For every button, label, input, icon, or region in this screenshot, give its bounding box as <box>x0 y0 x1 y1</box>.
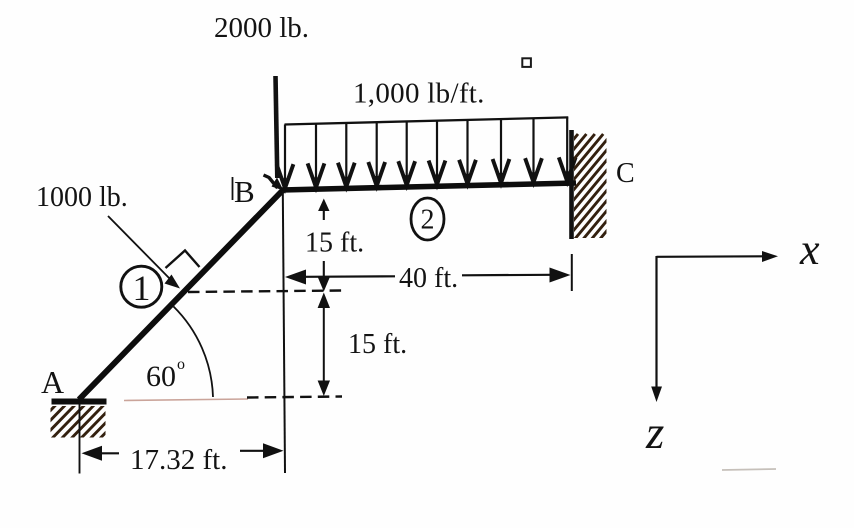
dim 40 ft: left shaft <box>305 275 395 278</box>
label B tick <box>232 177 234 200</box>
svg-text:1,000 lb/ft.: 1,000 lb/ft. <box>353 78 485 110</box>
chevron mark on member 1 <box>166 251 200 269</box>
extension line at B (x=283) <box>283 191 285 473</box>
support bar at A <box>52 399 107 405</box>
dashed line upper (15 ft level) <box>188 291 342 293</box>
distributed load arrow at x=567.2 <box>566 117 568 179</box>
dim 15 ft upper: up arrow <box>323 205 325 220</box>
distributed load arrow at x=376.7 <box>376 122 378 184</box>
svg-text:B: B <box>234 174 255 209</box>
dim 15 ft upper: down arrow <box>323 261 325 282</box>
dim 15 ft lower: down arrowhead <box>318 381 330 397</box>
distributed load arrow at x=406.7 <box>406 122 408 184</box>
svg-text:z: z <box>645 407 664 459</box>
dim 40 ft: right shaft <box>462 274 550 277</box>
dim 40 ft: right arrowhead <box>550 268 571 283</box>
axis x line <box>657 255 767 258</box>
member 1 A-B <box>79 190 284 400</box>
faint pencil line at A level <box>124 399 248 401</box>
svg-text:C: C <box>616 158 635 189</box>
svg-text:x: x <box>799 225 820 274</box>
svg-text:1: 1 <box>133 268 151 308</box>
small square marker <box>522 58 531 67</box>
distributed load arrows <box>277 117 576 188</box>
axis z arrowhead <box>651 387 662 403</box>
dim 40 ft: left arrowhead <box>285 270 306 285</box>
axis z line <box>655 256 657 390</box>
dim 17.32 ft: right arrowhead <box>263 443 284 458</box>
svg-text:2000 lb.: 2000 lb. <box>214 12 309 44</box>
distributed load arrow at x=346.3 <box>345 123 347 185</box>
force arrow 2000 lb head <box>272 178 284 191</box>
leader line 1000 lb <box>108 216 172 281</box>
member tag circle 2 <box>411 198 444 240</box>
distributed load arrow at x=316 <box>315 124 317 186</box>
distributed load arrow at x=501 <box>500 119 502 181</box>
extension line below C wall <box>571 254 573 291</box>
member 2 B-C <box>282 183 577 190</box>
member tag circle 1 <box>121 266 162 307</box>
wall hatching at C <box>465 134 696 240</box>
svg-text:17.32 ft.: 17.32 ft. <box>130 444 227 476</box>
faint scan line bottom right <box>722 469 776 470</box>
force arrow 2000 lb hook <box>264 175 278 188</box>
svg-text:60: 60 <box>146 360 176 393</box>
dim 17.32 ft: left shaft <box>101 452 119 454</box>
leader arrowhead 1000 lb <box>165 275 181 289</box>
svg-text:15 ft.: 15 ft. <box>305 228 364 259</box>
dim 15 ft lower: shaft <box>323 298 325 390</box>
force arrow 2000 lb shaft <box>276 76 278 178</box>
dim 15 ft lower: up arrowhead <box>318 293 330 309</box>
svg-text:40 ft.: 40 ft. <box>399 263 458 294</box>
distributed load arrow at x=285 <box>284 125 286 187</box>
dashed line lower (A level) <box>247 397 342 398</box>
extension line at A (x=79.5) <box>79 404 81 474</box>
angle arc 60 deg <box>174 307 214 398</box>
svg-text:A: A <box>41 364 64 400</box>
dim 17.32 ft: right shaft <box>240 450 264 452</box>
distributed load arrow at x=437 <box>436 121 438 183</box>
support hatching at A <box>12 404 133 440</box>
distributed load arrow at x=467.5 <box>466 120 468 182</box>
wall line at C <box>569 130 574 239</box>
axis x arrowhead <box>762 251 778 262</box>
svg-text:15 ft.: 15 ft. <box>348 329 407 360</box>
distributed load arrow at x=533.5 <box>532 118 534 180</box>
svg-text:1000 lb.: 1000 lb. <box>36 182 128 213</box>
distributed load top line <box>285 117 569 124</box>
dim 17.32 ft: left arrowhead <box>82 446 103 461</box>
svg-text:o: o <box>177 356 185 373</box>
svg-text:2: 2 <box>421 205 435 236</box>
